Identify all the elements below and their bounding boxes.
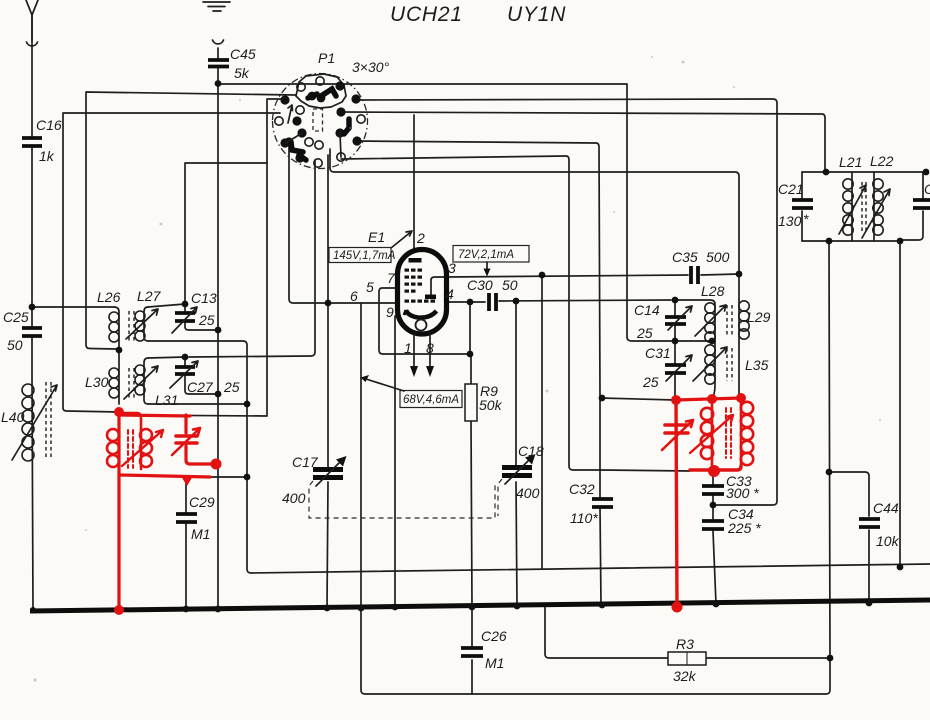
inductor L27 [126, 307, 158, 341]
svg-text:L26: L26 [97, 289, 121, 305]
svg-text:L22: L22 [870, 153, 894, 169]
tube heater arrows pins 1 and 8 [414, 334, 430, 367]
red coil loop [741, 453, 753, 465]
capacitor C21 [792, 200, 813, 208]
red core right [726, 408, 731, 458]
wire plate pin3 y275 to C35 [431, 275, 688, 296]
wire osc feed x777 from socket pin down to C33/C34 node [356, 99, 777, 505]
svg-text:5k: 5k [234, 65, 250, 81]
red junction dot [707, 394, 717, 404]
wire L21 box bottom rail [802, 240, 900, 242]
capacitor C27 trimmer [175, 367, 195, 374]
red wire [690, 415, 733, 453]
junction [244, 401, 251, 408]
red wire [181, 476, 193, 486]
svg-text:E1: E1 [368, 229, 385, 245]
svg-text:L35: L35 [745, 357, 769, 373]
svg-text:6: 6 [350, 288, 358, 304]
wire y163 spur to C13/C27 column [185, 163, 267, 312]
svg-text:25: 25 [636, 325, 653, 341]
svg-text:400: 400 [282, 490, 306, 506]
ground symbol top [203, 2, 230, 11]
wire pin4 y302 through C30 to C14 top and L28 [445, 300, 671, 302]
wire x328 socket to C17 riser [327, 155, 328, 608]
capacitor C26 [461, 648, 483, 656]
svg-text:8: 8 [426, 340, 434, 356]
svg-text:145V,1,7mA: 145V,1,7mA [333, 250, 396, 262]
wire R3 net [545, 606, 830, 658]
junction [599, 602, 606, 609]
red wire to black riser [119, 415, 190, 416]
wire L28 bottom row y341 [675, 340, 715, 342]
inductor L30 [109, 350, 119, 404]
ground bus [30, 600, 930, 611]
wire y156 riser x569 [341, 156, 600, 470]
red coil L left [107, 429, 119, 441]
red junction dot [671, 395, 681, 405]
box 72V with arrow [453, 246, 529, 263]
svg-text:72V,2,1mA: 72V,2,1mA [458, 249, 514, 261]
junction [358, 605, 365, 612]
svg-text:500: 500 [706, 249, 730, 265]
svg-text:110*: 110* [570, 510, 598, 526]
wire L31 bottom y404 [148, 403, 247, 405]
junction [392, 604, 399, 611]
tube triode anode bar [425, 295, 436, 300]
red coil L right with arrow [119, 413, 141, 469]
wire y99 socket pin left to C13 column and osc coil [119, 99, 286, 416]
wire top bus y84 from C45 node to C14 box left edge [218, 84, 673, 341]
resistor R9 [465, 384, 477, 421]
wire x315 socket to C27 top wire [189, 160, 315, 357]
junction [897, 564, 904, 571]
svg-text:1: 1 [404, 340, 412, 356]
capacitor C16 [22, 138, 42, 146]
svg-text:10k: 10k [876, 533, 900, 549]
wire y115 anode feed to IF transformer L21 [341, 112, 825, 172]
svg-text:7: 7 [387, 270, 396, 286]
svg-text:1k: 1k [39, 148, 55, 164]
svg-text:9: 9 [386, 304, 394, 320]
red coil loop [701, 447, 713, 459]
junction [30, 607, 36, 613]
capacitor C32 [592, 499, 613, 507]
capacitor C29 [176, 514, 197, 522]
wire pin2 vertical [413, 115, 415, 249]
core L30/L31 [129, 368, 134, 400]
resistor R3 [668, 652, 706, 665]
wire L29 column [738, 300, 740, 396]
red coil loop [140, 455, 152, 467]
red wire [662, 420, 693, 450]
junction [215, 606, 222, 613]
red junction dot [736, 393, 746, 403]
red coil loop [701, 408, 713, 420]
junction [897, 238, 904, 245]
wire C14 column [674, 300, 676, 400]
wire L21 box top rail [802, 171, 926, 173]
junction [29, 304, 36, 311]
svg-text:C: C [924, 181, 930, 197]
red osc coil left section [117, 412, 120, 610]
box 145V [329, 248, 391, 263]
wire C27 column [184, 357, 186, 366]
junction [215, 327, 222, 334]
E1 designation arrow [391, 231, 412, 248]
junction [467, 351, 474, 358]
svg-text:68V,4,6mA: 68V,4,6mA [403, 394, 459, 406]
inductor L22 [873, 172, 875, 241]
svg-text:C27: C27 [187, 379, 214, 395]
svg-text:UY1N: UY1N [507, 3, 566, 26]
svg-text:3: 3 [448, 260, 456, 276]
svg-text:P1: P1 [318, 50, 335, 66]
red core left [128, 430, 133, 468]
inductor L26 [109, 307, 119, 348]
svg-text:L31: L31 [155, 392, 178, 408]
junction [709, 338, 716, 345]
junction [923, 169, 930, 176]
inductor L29 [739, 301, 749, 311]
svg-text:C32: C32 [569, 481, 595, 497]
capacitor C33 [702, 486, 724, 494]
red junction dot [114, 407, 124, 417]
svg-text:L29: L29 [747, 309, 771, 325]
tube E1 envelope [398, 249, 447, 334]
core L21/L22 [862, 182, 866, 234]
red coil loop [741, 441, 753, 453]
wire y470 to red junction C33 [600, 470, 690, 471]
red junction dot [672, 602, 683, 613]
svg-text:C17: C17 [292, 454, 319, 470]
wire y477 black part [208, 476, 247, 478]
wire x900 down to long wire [899, 241, 901, 567]
inductor lower black (osc) [705, 345, 715, 355]
svg-text:C16: C16 [36, 117, 62, 133]
svg-text:300 *: 300 * [726, 485, 759, 501]
wire C18 riser x516 [516, 301, 517, 606]
box 68V with arrow [400, 391, 462, 408]
wire antenna column x32 [32, 14, 33, 610]
capacitor right edge [913, 200, 930, 208]
svg-text:L28: L28 [701, 283, 725, 299]
wire C29 column [185, 477, 187, 609]
wire y113 from left riser to socket pin, riser down to red junction [63, 113, 280, 412]
wire C45 column x218 [217, 48, 219, 610]
wire C13 bottom corner to node 218,330 [185, 322, 218, 330]
capacitor C25 [22, 328, 42, 336]
svg-text:2: 2 [416, 230, 425, 246]
svg-text:C21: C21 [778, 181, 804, 197]
red coil loop [239, 99, 241, 101]
red trimmer branch left [184, 415, 187, 433]
capacitor C44 [859, 519, 880, 527]
junction [599, 395, 606, 402]
capacitor C13 trimmer [175, 313, 195, 321]
wire L31 top to C27 [148, 357, 185, 358]
junction [467, 299, 474, 306]
junction [823, 169, 830, 176]
wire C33 C34 column [713, 471, 716, 604]
tube socket P1 [273, 74, 368, 169]
svg-text:C26: C26 [481, 628, 507, 644]
wire pin9 riser [395, 316, 397, 607]
wire C44 branch [829, 472, 869, 603]
svg-text:M1: M1 [191, 526, 210, 542]
tube pip [416, 320, 427, 331]
junction [514, 603, 521, 610]
svg-text:32k: 32k [673, 668, 697, 684]
wire y172 from socket pin to x739 riser [330, 149, 739, 300]
junction [325, 300, 332, 307]
red wire [186, 446, 217, 464]
capacitor C35 series [691, 266, 698, 284]
red coil loop [140, 442, 152, 454]
wire R9/C26 column [470, 302, 472, 607]
capacitor C30 series [489, 293, 496, 311]
capacitor C31 trimmer [665, 365, 686, 373]
wire C25 node to L26 [32, 306, 114, 308]
wire lower black coil column [713, 341, 715, 397]
wire right cap column [900, 172, 923, 240]
wire L27 top to C13 top [148, 304, 185, 307]
junction [244, 474, 251, 481]
wire x542 riser from plate wire to long bottom wire [541, 275, 543, 569]
wire C21 column [801, 172, 803, 241]
red coil loop [741, 415, 753, 427]
svg-text:25: 25 [223, 379, 240, 395]
svg-text:400: 400 [516, 485, 540, 501]
core L28/L29 [727, 305, 732, 336]
red coil loop [701, 422, 713, 434]
tube grids [405, 269, 436, 303]
red wire [172, 428, 200, 455]
wire x361 osc grid riser to bus and below [360, 303, 362, 608]
red coil loop [741, 428, 753, 440]
svg-text:50k: 50k [479, 397, 503, 413]
red coil loop [107, 455, 119, 467]
junction [182, 301, 189, 308]
junction [672, 297, 679, 304]
svg-text:UCH21: UCH21 [390, 3, 463, 26]
svg-text:4: 4 [446, 286, 454, 302]
junction [513, 298, 520, 305]
red coil loop [701, 435, 713, 447]
core L26/L27 [129, 311, 134, 342]
inductor L31 [124, 358, 158, 404]
wire L27 bottom y341 to x247 riser, long slope wire to right edge [148, 341, 930, 573]
svg-text:5: 5 [366, 279, 374, 295]
wire pin5 path [379, 288, 470, 354]
red wire [122, 430, 163, 466]
red junction dot [211, 459, 222, 470]
inductor L40 [12, 382, 57, 461]
svg-text:C29: C29 [189, 494, 215, 510]
capacitor C17 gang [309, 456, 495, 518]
capacitor C14 trimmer with loop [665, 317, 686, 324]
red bottom wire with arrow [120, 475, 210, 477]
junction [672, 338, 679, 345]
junction [713, 601, 720, 608]
wire y143 to C32 riser [354, 141, 600, 398]
junction [736, 271, 743, 278]
junction [469, 604, 476, 611]
junction [826, 469, 833, 476]
svg-text:C30: C30 [467, 277, 493, 293]
junction [710, 502, 717, 509]
junction [866, 600, 873, 607]
svg-text:225 *: 225 * [727, 520, 761, 536]
red wire [176, 436, 197, 443]
red coil R right (L35) [740, 398, 743, 466]
wire pin6 riser x289 and grid wire y303 [289, 142, 397, 303]
svg-text:L40: L40 [1, 409, 25, 425]
svg-text:L27: L27 [137, 288, 162, 304]
junction [116, 347, 123, 354]
svg-text:C44: C44 [873, 500, 899, 516]
svg-text:L30: L30 [85, 374, 109, 390]
svg-text:C14: C14 [634, 302, 660, 318]
inductor L21 [851, 172, 853, 241]
red junction dot [708, 465, 720, 477]
tube cathode arc [406, 310, 437, 318]
tube anode bar top [409, 258, 422, 263]
red wire [711, 456, 714, 470]
wire C32 riser lower [600, 398, 601, 604]
red bottom joins [690, 466, 741, 470]
red coil loop [741, 402, 753, 414]
svg-text:3×30°: 3×30° [352, 59, 390, 75]
red coil loop [879, 419, 881, 421]
svg-text:*: * [803, 211, 809, 227]
junction [827, 655, 834, 662]
svg-text:25: 25 [198, 312, 215, 328]
svg-text:25: 25 [642, 374, 659, 390]
svg-text:C13: C13 [191, 290, 217, 306]
RED [107, 393, 753, 615]
svg-text:M1: M1 [485, 655, 504, 671]
capacitor C45 [213, 40, 224, 44]
red coil R left [711, 399, 714, 456]
svg-text:C25: C25 [3, 309, 29, 325]
capacitor C34 [702, 521, 724, 529]
svg-text:L21: L21 [839, 154, 862, 170]
junction [826, 238, 833, 245]
junction [539, 272, 546, 279]
red coil loop [140, 429, 152, 441]
red coil loop [682, 61, 685, 64]
junction [215, 391, 222, 398]
red osc section right [676, 400, 677, 607]
red coil loop [349, 127, 351, 129]
wire y398 from C32 riser to red junction [600, 398, 675, 400]
junction [215, 80, 222, 87]
inductor L28 [705, 303, 715, 313]
svg-text:C31: C31 [645, 345, 671, 361]
junction [182, 354, 189, 361]
svg-text:130: 130 [778, 213, 802, 229]
svg-text:C45: C45 [230, 46, 256, 62]
junction [324, 605, 331, 612]
red coil loop [107, 442, 119, 454]
antenna [26, 0, 38, 40]
svg-text:50: 50 [502, 277, 518, 293]
svg-text:C35: C35 [672, 249, 698, 265]
wire x829 from L21 rail down through C44 tap to R3 [829, 241, 830, 658]
svg-text:50: 50 [7, 337, 23, 353]
junction [183, 606, 190, 613]
svg-text:C18: C18 [518, 443, 544, 459]
wire y92 from left corner to socket pin [86, 92, 296, 349]
red wire y399 [676, 398, 741, 400]
red junction dot [114, 605, 124, 615]
svg-text:R3: R3 [676, 636, 694, 652]
capacitor C18 gang [498, 454, 536, 516]
red trimmer on riser [665, 425, 688, 433]
